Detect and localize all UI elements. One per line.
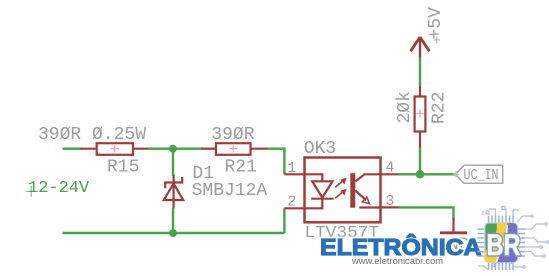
power +5V symbol [411, 7, 446, 58]
watermark logo: ELETRONICA text [320, 233, 482, 260]
light arrows inside OK3 [335, 178, 346, 198]
purple right-bottom region of chip [497, 223, 518, 262]
svg-text:UC_IN: UC_IN [464, 168, 499, 184]
wire D1 bottom [172, 208, 174, 234]
wire from R21 to opto pin1 [268, 149, 285, 175]
svg-text:2: 2 [287, 193, 296, 210]
wire top rail left segment [63, 147, 83, 149]
wire R22 up to +5V [419, 56, 421, 86]
svg-text:BR: BR [487, 229, 521, 262]
ground GND symbol [437, 218, 469, 256]
resistor R15 [38, 125, 150, 178]
pin 3 lead [381, 206, 399, 208]
optocoupler U1 OK3 box [304, 139, 381, 242]
node junction at R22 [416, 170, 424, 178]
svg-text:www.eletronicabr.com: www.eletronicabr.com [351, 255, 443, 266]
pin 1 lead [284, 173, 305, 175]
wire D1 top [172, 149, 174, 176]
watermark logo: chip graphic [478, 207, 549, 271]
svg-text:SMBJ12A: SMBJ12A [192, 181, 268, 201]
svg-text:39ØR Ø.25W: 39ØR Ø.25W [38, 125, 146, 145]
node junction top [169, 145, 177, 153]
diode D1 SMBJ12A [164, 164, 268, 209]
svg-text:+5V: +5V [426, 7, 446, 40]
svg-text:R21: R21 [225, 157, 257, 177]
watermark logo: BR text [487, 229, 521, 262]
svg-text:39ØR: 39ØR [211, 125, 254, 145]
resistor R22 [395, 85, 450, 149]
wire R22 to junction [419, 148, 421, 175]
svg-text:3: 3 [385, 193, 394, 210]
wire bottom rail [63, 232, 285, 234]
wire bottom rail up to opto pin2 [283, 208, 285, 233]
resistor R21 [201, 125, 269, 178]
wire top rail middle [148, 147, 202, 149]
svg-text:OK3: OK3 [304, 139, 336, 159]
node junction bottom [169, 229, 177, 237]
yellow swoosh band [485, 223, 508, 262]
pin 4 lead [381, 173, 399, 175]
white highlight on swoosh [497, 225, 508, 262]
pin 2 lead [284, 207, 305, 209]
svg-text:2Øk: 2Øk [395, 91, 415, 123]
wire pin4 to junction and UC_IN [399, 173, 456, 175]
signal tag UC_IN [453, 165, 503, 184]
phototransistor inside OK3 [350, 173, 380, 208]
svg-text:4: 4 [385, 159, 394, 176]
wire pin3 to GND [399, 207, 454, 219]
svg-text:R15: R15 [107, 158, 139, 178]
svg-text:R22: R22 [430, 92, 450, 124]
LED inside OK3 [305, 174, 334, 208]
svg-text:12-24V: 12-24V [28, 179, 90, 198]
svg-text:1: 1 [287, 160, 296, 177]
label 12-24V [26, 179, 90, 198]
